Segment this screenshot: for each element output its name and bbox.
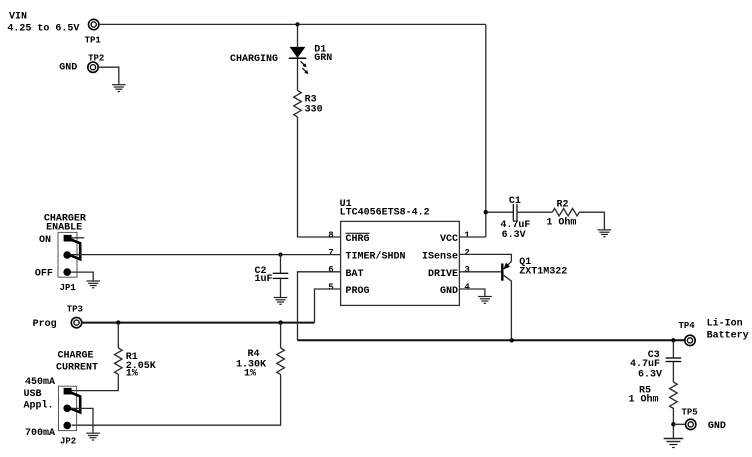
junction VIN/D1 bbox=[295, 22, 299, 26]
svg-text:CURRENT: CURRENT bbox=[56, 362, 98, 373]
svg-text:Li-Ion: Li-Ion bbox=[707, 318, 743, 330]
connector JP2 bbox=[59, 386, 77, 446]
label CHARGE CURRENT bbox=[56, 350, 98, 373]
connector JP1 bbox=[58, 232, 77, 293]
wire VCC pin1 bbox=[459, 236, 485, 238]
svg-text:VCC: VCC bbox=[440, 234, 458, 245]
junction battery/C3 bbox=[671, 338, 675, 342]
testpoint TP3 bbox=[33, 305, 83, 331]
svg-text:3: 3 bbox=[464, 265, 469, 275]
svg-text:700mA: 700mA bbox=[25, 428, 55, 439]
svg-text:8: 8 bbox=[328, 230, 333, 240]
transistor Q1 ZXT1M322 bbox=[502, 257, 567, 340]
wire BAT pin6 down bbox=[298, 272, 341, 341]
svg-text:1uF: 1uF bbox=[255, 274, 273, 285]
svg-text:VIN: VIN bbox=[9, 11, 27, 22]
svg-text:JP2: JP2 bbox=[60, 436, 76, 446]
wire VIN rail down to C1 node bbox=[485, 24, 487, 237]
svg-text:TP5: TP5 bbox=[682, 407, 698, 417]
junction battery/Q1 bbox=[510, 338, 514, 342]
junction TIMER/C2 bbox=[278, 253, 282, 257]
svg-text:330: 330 bbox=[305, 104, 323, 115]
svg-text:CHARGING: CHARGING bbox=[230, 54, 278, 65]
testpoint TP2 bbox=[59, 53, 104, 73]
svg-text:GND: GND bbox=[59, 63, 77, 74]
svg-text:R2: R2 bbox=[557, 200, 569, 211]
junction VCC/C1 bbox=[484, 210, 488, 214]
wire DRIVE pin3 to Q1 base bbox=[459, 271, 501, 273]
svg-text:TIMER/SHDN: TIMER/SHDN bbox=[346, 251, 406, 263]
resistor R1 2.05K 1% bbox=[115, 323, 156, 380]
LED D1 GRN bbox=[289, 45, 333, 75]
svg-text:Prog: Prog bbox=[33, 319, 57, 330]
svg-text:GRN: GRN bbox=[314, 53, 332, 64]
svg-text:7: 7 bbox=[328, 248, 333, 258]
svg-text:4.7uF: 4.7uF bbox=[630, 359, 660, 370]
testpoint TP4 bbox=[679, 321, 696, 345]
svg-text:OFF: OFF bbox=[35, 268, 53, 279]
wire VIN top rail bbox=[99, 23, 486, 25]
svg-text:2: 2 bbox=[464, 248, 469, 258]
svg-text:C1: C1 bbox=[509, 196, 521, 207]
svg-text:ON: ON bbox=[39, 235, 51, 246]
wire VIN to LED anode bbox=[297, 24, 299, 47]
wire LED cathode to R3 bbox=[297, 58, 299, 90]
ground TP2 bbox=[112, 85, 126, 92]
wire battery rail bbox=[298, 339, 685, 341]
ground R2 bbox=[598, 230, 612, 237]
resistor R5 1 Ohm bbox=[629, 382, 678, 408]
resistor R2 1 Ohm bbox=[546, 200, 579, 229]
node VIN label bbox=[7, 11, 79, 34]
ground JP2 bbox=[86, 433, 100, 440]
svg-text:5: 5 bbox=[328, 282, 333, 292]
ground U1 pin4 bbox=[478, 297, 492, 304]
label CHARGER ENABLE bbox=[44, 214, 86, 234]
resistor R3 330 bbox=[294, 91, 323, 117]
svg-text:Battery: Battery bbox=[707, 331, 749, 342]
wire Prog rail bbox=[82, 322, 315, 324]
svg-text:DRIVE: DRIVE bbox=[428, 269, 458, 280]
wire R2 to ground bbox=[579, 212, 604, 230]
capacitor C3 4.7uF 6.3V bbox=[630, 340, 681, 382]
wire JP1 pin2 to TIMER/SHDN bbox=[71, 254, 341, 256]
junction R5/TP5 bbox=[671, 422, 675, 426]
label 450mA USB Appl 700mA bbox=[24, 377, 56, 439]
wire R5 to ground bbox=[672, 408, 674, 439]
svg-text:TP3: TP3 bbox=[67, 305, 83, 315]
ground JP1 bbox=[86, 281, 100, 288]
svg-text:R4: R4 bbox=[248, 349, 260, 360]
capacitor C1 4.7uF 6.3V bbox=[486, 196, 531, 241]
svg-text:Appl.: Appl. bbox=[24, 399, 54, 411]
svg-text:4: 4 bbox=[464, 282, 470, 292]
svg-text:1 Ohm: 1 Ohm bbox=[629, 393, 659, 405]
node Li-Ion Battery label bbox=[707, 318, 749, 342]
svg-text:CHARGE: CHARGE bbox=[58, 350, 94, 361]
wire C1 to R2 bbox=[517, 211, 552, 213]
junction Prog/R1 bbox=[116, 320, 120, 324]
wire R3 to CHRG pin8 bbox=[298, 117, 341, 237]
svg-text:CHRG: CHRG bbox=[346, 234, 370, 245]
jumper shunt JP1 pins1-2 bbox=[70, 239, 81, 259]
svg-text:1%: 1% bbox=[244, 369, 256, 380]
svg-text:JP1: JP1 bbox=[60, 283, 77, 293]
svg-text:USB: USB bbox=[24, 389, 42, 400]
svg-text:GND: GND bbox=[440, 286, 458, 297]
svg-text:PROG: PROG bbox=[346, 286, 370, 297]
testpoint TP1 bbox=[85, 19, 102, 45]
svg-text:ZXT1M322: ZXT1M322 bbox=[519, 266, 567, 277]
wire R4 to JP2 pin3 bbox=[72, 374, 281, 425]
wire GND pin4 to ground bbox=[459, 289, 485, 297]
svg-text:6.3V: 6.3V bbox=[502, 230, 526, 241]
junction Prog/R4 bbox=[278, 320, 282, 324]
testpoint TP5 bbox=[682, 407, 726, 432]
svg-text:6.3V: 6.3V bbox=[638, 369, 662, 380]
jumper shunt JP2 pins1-2 bbox=[70, 392, 81, 412]
svg-text:6: 6 bbox=[328, 265, 333, 275]
svg-text:BAT: BAT bbox=[346, 269, 364, 280]
IC U1 LTC4056ETS8-4.2 bbox=[340, 199, 460, 305]
wire JP2 pin2 to ground bbox=[71, 408, 93, 433]
svg-text:GND: GND bbox=[708, 421, 726, 432]
svg-text:450mA: 450mA bbox=[25, 377, 55, 388]
capacitor C2 1uF bbox=[255, 255, 289, 298]
svg-text:4.25 to 6.5V: 4.25 to 6.5V bbox=[7, 23, 79, 34]
resistor R4 1.30K 1% bbox=[236, 323, 284, 380]
wire TP2 to ground bbox=[98, 67, 119, 85]
wire JP1 pin1 stub bbox=[72, 237, 85, 239]
svg-text:1: 1 bbox=[464, 230, 470, 240]
wire PROG pin5 bbox=[315, 289, 341, 323]
svg-text:TP1: TP1 bbox=[85, 35, 102, 45]
svg-text:ISense: ISense bbox=[422, 252, 458, 263]
wire ISense pin2 to Q1 emitter bbox=[459, 254, 511, 261]
wire TP5 stub bbox=[673, 423, 685, 425]
svg-text:ENABLE: ENABLE bbox=[46, 222, 82, 233]
ground C2 bbox=[274, 298, 288, 305]
wire JP1 pin3 to ground bbox=[71, 272, 93, 281]
svg-text:1 Ohm: 1 Ohm bbox=[546, 216, 576, 228]
ground TP5 bbox=[664, 439, 684, 448]
svg-text:LTC4056ETS8-4.2: LTC4056ETS8-4.2 bbox=[340, 207, 430, 218]
svg-text:1%: 1% bbox=[126, 369, 138, 380]
wire R1 to JP2 pin1 bbox=[72, 374, 119, 390]
svg-text:TP4: TP4 bbox=[679, 321, 696, 331]
